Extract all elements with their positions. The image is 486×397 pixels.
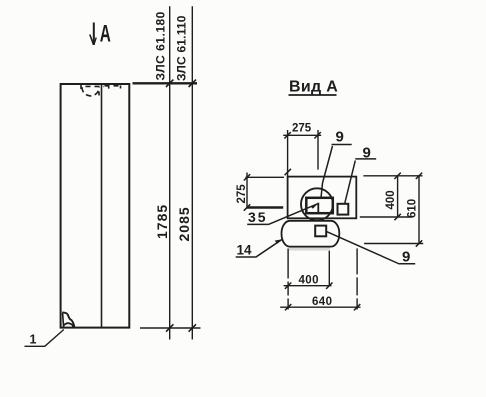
leader 9 #3 (to stadium square) <box>326 231 415 263</box>
circle hole <box>301 188 333 220</box>
top dimension 275: extension line left <box>287 130 289 177</box>
leader 35 (to latch) <box>247 204 317 225</box>
svg-text:2085: 2085 <box>176 206 192 241</box>
svg-text:400: 400 <box>385 190 397 209</box>
svg-text:9: 9 <box>363 145 371 162</box>
right dimensions: top extension line <box>363 175 422 177</box>
panel inner edge line <box>101 84 103 328</box>
scan smudge under slot <box>289 248 330 251</box>
title underline <box>289 94 337 96</box>
svg-text:А: А <box>100 21 111 47</box>
svg-text:1: 1 <box>30 333 37 347</box>
panel foot detail <box>62 312 74 327</box>
bottom dimensions: middle extension line <box>328 251 330 286</box>
left dimension 275: bottom extension (heavy) <box>247 206 284 209</box>
svg-text:14: 14 <box>237 243 253 258</box>
panel outline <box>61 84 130 328</box>
ticks top 275 <box>284 132 320 138</box>
square fastener in stadium slot <box>315 226 326 237</box>
dimension line 610 (right) <box>418 176 420 244</box>
bottom dimensions: left extension line <box>287 249 289 310</box>
detail box <box>288 177 357 219</box>
extension line bottom (panel bottom level) <box>140 327 201 329</box>
right dimensions: bottom extension line (610) <box>364 243 423 245</box>
arrowhead leader 14 <box>275 239 282 244</box>
svg-text:640: 640 <box>312 296 332 308</box>
right dimensions: middle extension line (400) <box>360 216 412 218</box>
svg-text:400: 400 <box>299 275 319 287</box>
ticks right dims <box>394 173 422 247</box>
ticks left 275 <box>244 174 250 211</box>
hidden handle detail (dashed) <box>81 85 121 96</box>
svg-text:1785: 1785 <box>154 204 170 239</box>
small square fastener right of circle <box>338 204 349 215</box>
latch rectangle inside circle <box>306 198 333 213</box>
top dimension 275: extension line right <box>317 130 319 170</box>
dimension line 640 (bottom) <box>280 306 360 308</box>
stadium slot <box>282 221 340 247</box>
dimension line 1785 <box>169 6 171 339</box>
left dimension line 275 <box>246 173 248 208</box>
svg-text:9: 9 <box>402 249 410 266</box>
top dimension line 275 <box>283 134 321 136</box>
view direction arrow A <box>90 23 96 46</box>
svg-text:35: 35 <box>248 209 268 225</box>
ticks bottom dims <box>285 283 360 311</box>
svg-text:610: 610 <box>407 199 419 218</box>
tick marks on vertical dimensions <box>166 80 196 332</box>
svg-text:9: 9 <box>336 129 344 146</box>
dimension line 400 (bottom) <box>284 285 332 287</box>
dimension line 400 (right) <box>397 176 399 217</box>
leader 14 (to stadium slot) <box>236 240 282 257</box>
svg-text:275: 275 <box>292 123 312 135</box>
latch mark inside rectangle <box>317 203 319 213</box>
leader 9 #2 (to small square) <box>345 159 377 204</box>
tick on box-left extension <box>285 169 291 175</box>
bottom dimensions: right extension line <box>356 248 358 309</box>
dimension line 2085 <box>191 6 193 339</box>
leader to position 1 <box>25 330 64 347</box>
extension line top (panel top level) <box>133 82 198 84</box>
svg-text:ЗЛС 61.110: ЗЛС 61.110 <box>175 15 189 81</box>
svg-text:Вид А: Вид А <box>289 79 338 96</box>
svg-text:275: 275 <box>236 184 248 204</box>
arrowhead leader 35 <box>311 203 319 208</box>
left dimension 275: top extension <box>245 176 284 178</box>
leader 9 #1 (to latch) <box>321 145 352 199</box>
svg-text:ЗЛС 61.180: ЗЛС 61.180 <box>154 11 168 80</box>
